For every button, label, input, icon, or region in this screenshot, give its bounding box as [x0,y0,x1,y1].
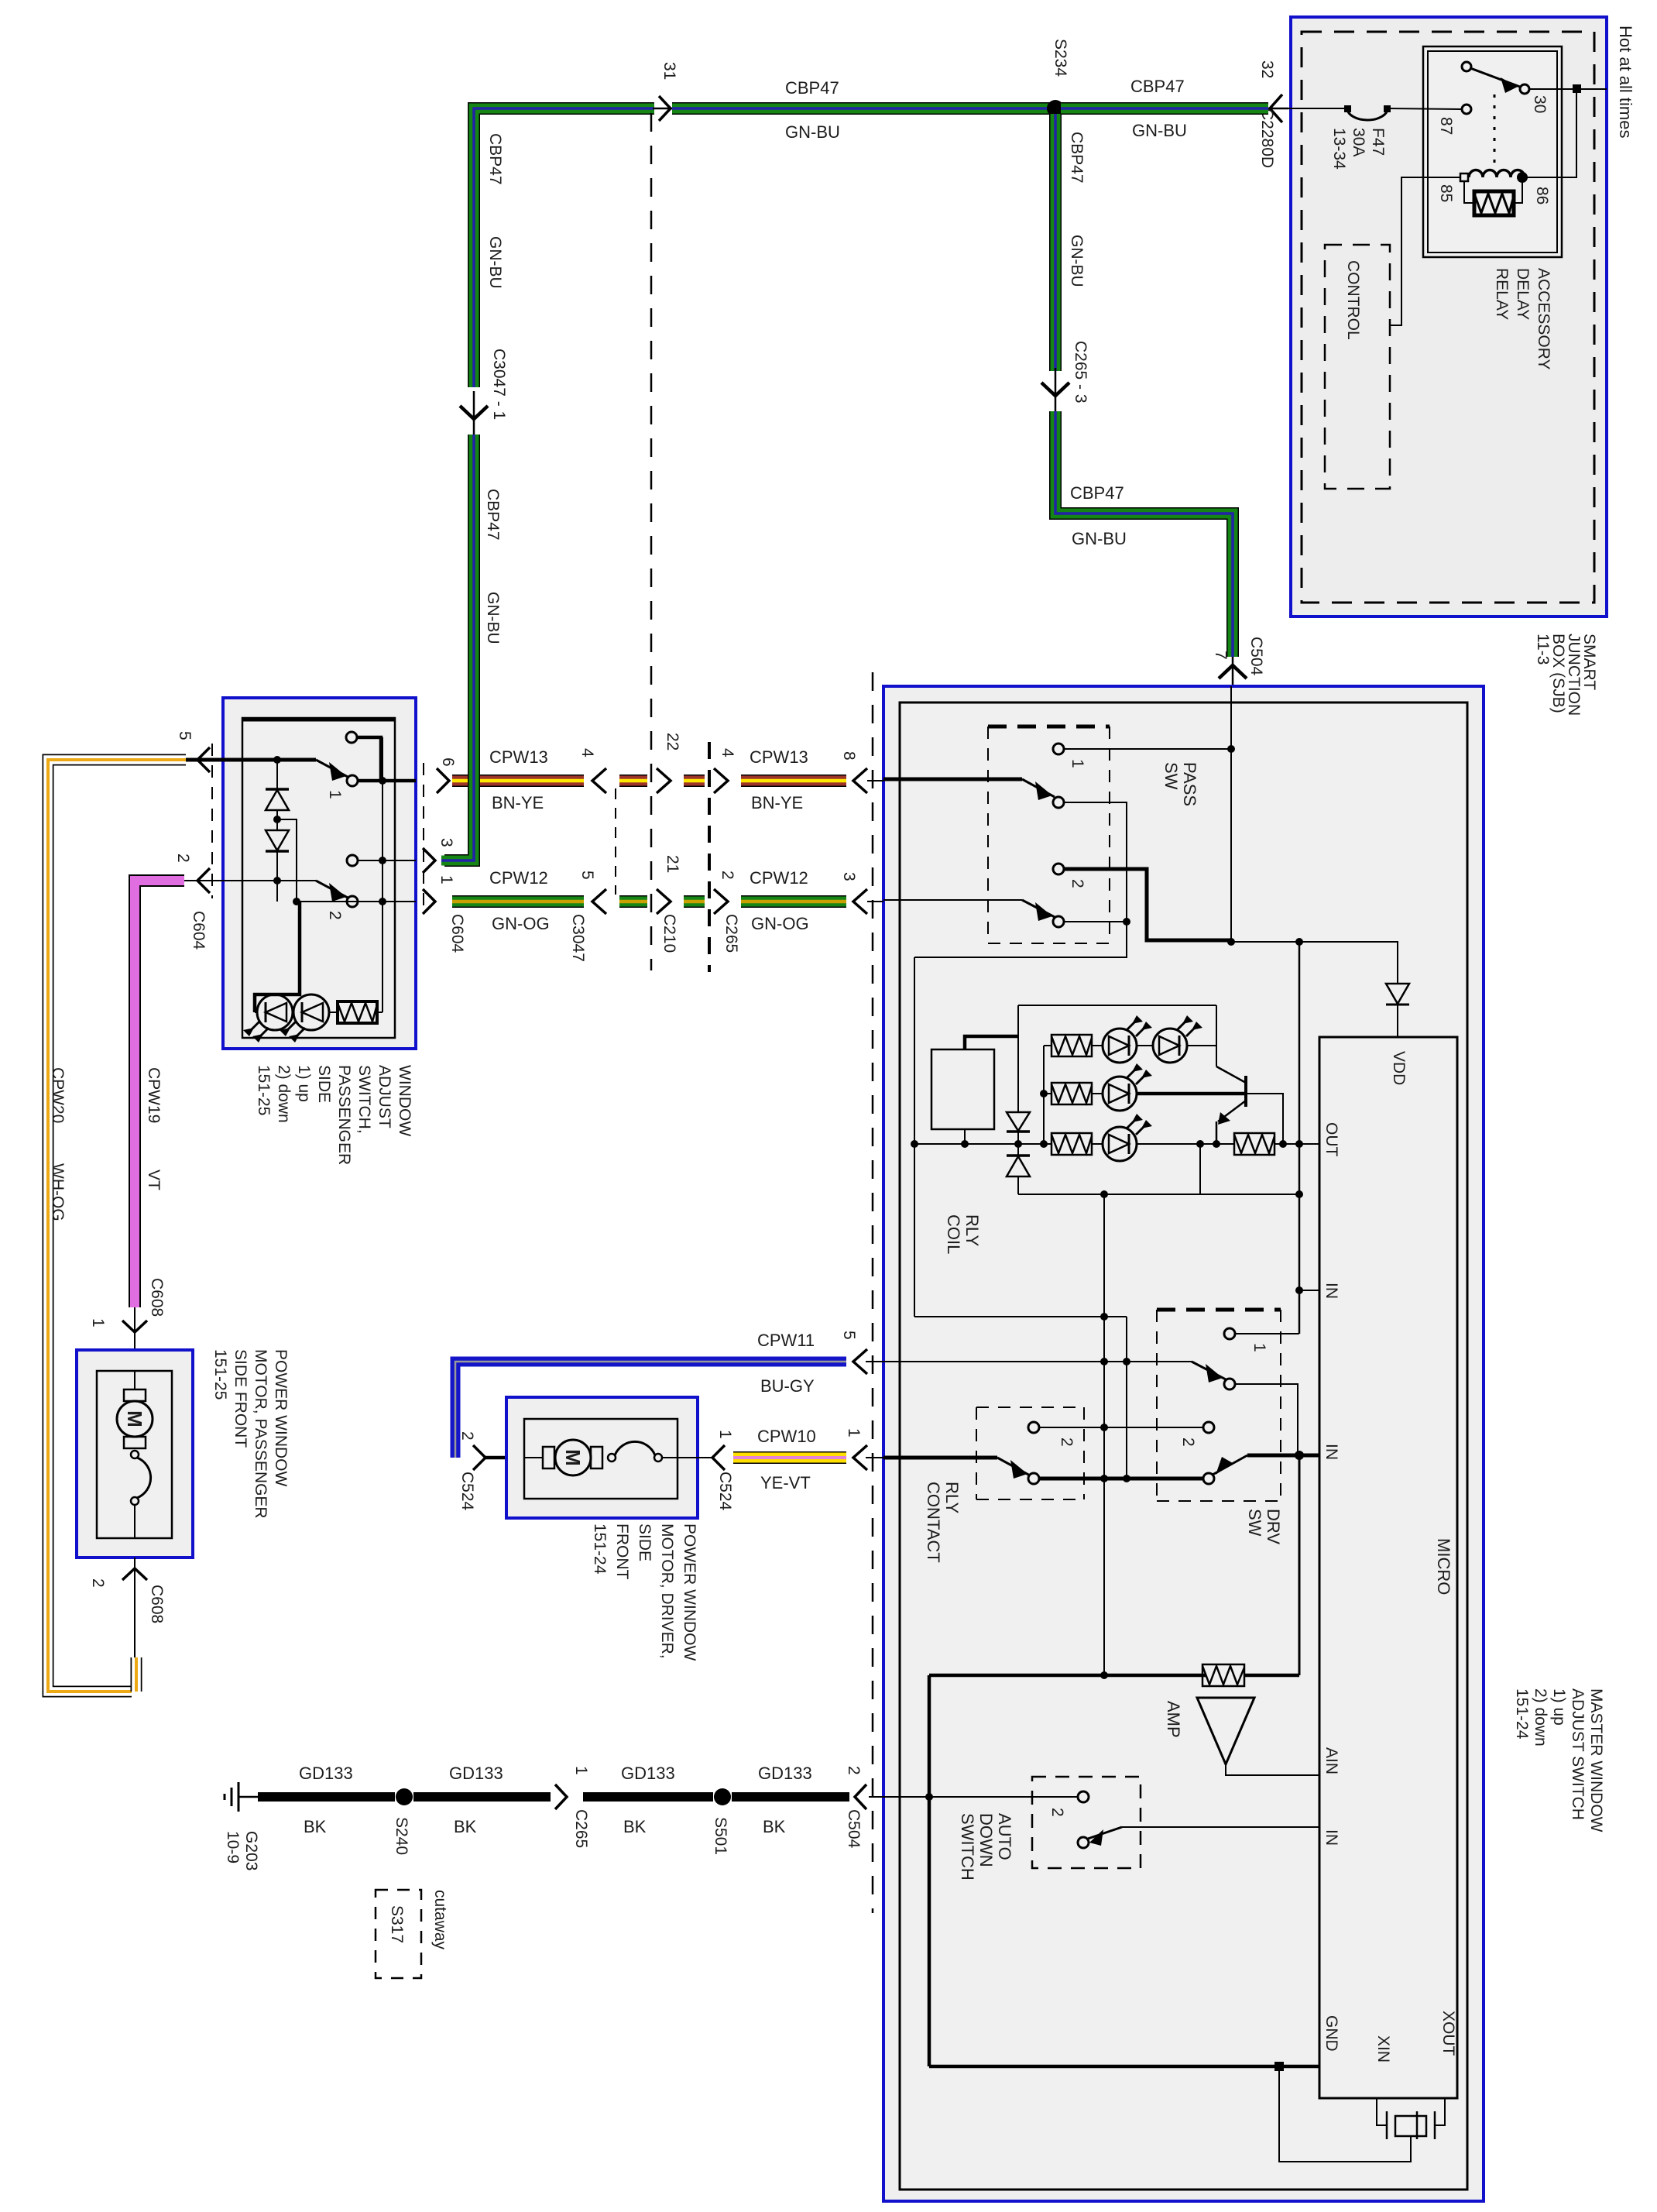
diode PD1 (cathode up) [266,788,289,791]
junction dot cpw11 x1455 [1123,1358,1130,1365]
wire led1-led2 passenger [293,1012,293,1013]
svg-text:POWER WINDOW: POWER WINDOW [681,1523,698,1661]
svg-text:85: 85 [1437,184,1455,202]
svg-text:CPW12: CPW12 [489,868,548,888]
svg-text:2: 2 [845,1766,863,1775]
svg-text:FRONT: FRONT [613,1523,631,1579]
main vertical bus [1298,942,1301,1334]
corner main vertical to feed [1244,1674,1299,1678]
svg-text:151-24: 151-24 [1513,1688,1531,1740]
relay armature arm [1470,68,1520,87]
splice S234 [1047,100,1064,117]
connector arrow cpw13 left-mid [592,768,606,793]
svg-text:2: 2 [1069,879,1086,888]
dashed line connector pair left [615,788,616,895]
svg-text:BK: BK [763,1817,786,1836]
junction dot base tie [1279,1140,1287,1148]
master window adjust switch blue box [883,686,1484,2201]
VDD diode [1386,984,1409,1004]
wire contact2 thick to feed junction [1064,869,1230,940]
svg-text:GD133: GD133 [299,1764,353,1783]
svg-text:CBP47: CBP47 [484,489,502,541]
wire contact30 to hot feed [1529,88,1607,90]
connector arrow cpw10 right [853,1445,867,1470]
wire cpw12 stub to master [867,901,883,902]
svg-text:SW: SW [1245,1509,1264,1537]
master switch assembly box [900,702,1467,2190]
junction dot thick line x1455 [1123,1475,1130,1482]
arm 2 arrowhead [1035,902,1052,921]
svg-text:4: 4 [578,748,596,757]
relay coil resistor branch [1464,181,1474,203]
S317 cutaway dashed box [376,1890,421,1978]
svg-text:BN-YE: BN-YE [492,793,544,812]
wire CPW12 solid right [741,895,846,908]
AMP resistor [1202,1664,1244,1686]
vertical x1426 [1103,1194,1105,1675]
svg-text:GN-OG: GN-OG [492,914,550,933]
svg-text:PASS: PASS [1180,762,1199,806]
junction hot feed to coil [1573,84,1581,93]
wire GD133 segment 2 [413,1792,551,1802]
PASS SW arm 1 [1022,779,1055,797]
right vertical x494 [382,737,383,1012]
svg-text:WINDOW: WINDOW [396,1065,413,1136]
connector arrow pin3 green [423,848,435,873]
svg-text:C524: C524 [458,1472,476,1511]
wire GD133 segment 1 [258,1792,395,1802]
wire led2 to right vertical [1187,1045,1216,1046]
accessory delay relay inner box [1428,51,1557,252]
wire CBP47 mid vertical lower + elbow to C504 [1055,411,1233,657]
svg-text:GD133: GD133 [621,1764,675,1783]
svg-text:2: 2 [719,871,736,880]
svg-text:CPW10: CPW10 [757,1427,816,1446]
connector arrow cpw13 mid2 [714,768,728,793]
C604 dashed connector line left [211,744,213,898]
svg-text:SWITCH: SWITCH [958,1813,977,1881]
svg-text:C504: C504 [1247,637,1265,676]
svg-text:BN-YE: BN-YE [751,793,803,812]
svg-text:C524: C524 [716,1472,734,1511]
svg-text:30A: 30A [1350,128,1367,156]
svg-text:SWITCH,: SWITCH, [355,1065,373,1134]
heavy dashed connector C265 [708,742,711,972]
connector arrow cpw13 right [853,768,867,793]
svg-text:IN: IN [1323,1829,1340,1846]
relay switch pivot pin 30 side [1462,62,1471,71]
diode D2 (cathode up) [1007,1154,1030,1157]
svg-text:M: M [561,1449,585,1466]
wire led row passenger [255,1012,258,1013]
SJB inner dashed border [1302,32,1594,603]
resistor zigzag in relay [1474,194,1514,213]
svg-text:C265: C265 [722,914,740,953]
thick feed line to AMP [929,1674,1206,1678]
wire CBP47 left vertical lower [444,434,474,860]
svg-text:SIDE FRONT: SIDE FRONT [232,1349,249,1448]
crystal ground loop [1279,2066,1411,2162]
svg-text:AUTO: AUTO [995,1813,1014,1860]
coil pin 85 tick [1460,173,1468,181]
junction dot bottom rail main vertical [1295,1190,1303,1198]
AUTO DOWN SWITCH dashed box [1032,1777,1141,1868]
MICRO box [1319,1037,1457,2098]
thermal breaker driver [608,1441,678,1461]
RLY CONTACT arm [997,1458,1030,1475]
LED3 row2 [1103,1063,1152,1111]
bottom rail [1018,1194,1299,1195]
junction dot IN1 stub [1295,1286,1303,1294]
wire GD133 entry inside [900,1796,1078,1798]
splice S501 [714,1788,731,1805]
wire pin2 stub [184,880,223,881]
junction dot diodes mid / out rail [1014,1140,1022,1148]
AUTO DOWN pivot circle [1078,1837,1089,1848]
AUTO DOWN contact circle [1078,1791,1089,1802]
wire CPW10 pin1 thick entry [883,1456,997,1460]
wire CPW12 dash segment 1 [619,895,647,908]
junction dot cpw11 x1426 [1100,1358,1108,1365]
wire fuse to pin 32 [1285,108,1347,109]
svg-text:Hot at all times: Hot at all times [1616,26,1635,139]
passenger top contact circle [346,732,357,743]
junction dot pin2 diode [273,877,281,884]
svg-text:GN-BU: GN-BU [486,236,504,289]
svg-text:22: 22 [664,733,681,750]
wire led2-resistor passenger [329,1012,338,1013]
OUT rail led4 to resistor [1137,1143,1234,1145]
AUTO DOWN arm [1088,1827,1122,1839]
relay contact 30 circle [1520,84,1529,94]
PASS SW dashed box [988,726,1110,943]
svg-text:DELAY: DELAY [1514,268,1532,320]
resistor R1 [1051,1035,1092,1056]
passenger switch inner box [242,718,395,1038]
RLY COIL rectangle [931,1049,994,1129]
connector arrow pin2 [197,868,210,893]
svg-text:C608: C608 [148,1585,166,1623]
resistor R2 [1051,1083,1092,1104]
junction dot OUT on main vertical [1295,1140,1303,1148]
PASS SW contact 2 circle [1053,864,1064,874]
svg-text:1) up: 1) up [295,1065,313,1102]
svg-text:151-25: 151-25 [255,1065,273,1115]
svg-text:7: 7 [1212,651,1230,660]
svg-text:13-34: 13-34 [1330,128,1348,170]
wire CBP47 mid vertical upper [1049,114,1062,371]
wire CPW11 inside to DRV SW [883,1361,1192,1362]
junction dot thick line x1426 [1100,1475,1108,1482]
wire cpw11 stub to master [866,1361,883,1362]
crystal left plate [1386,2111,1388,2139]
LED row 2: wire [1044,1093,1051,1094]
svg-text:1: 1 [1069,759,1086,768]
svg-text:RLY: RLY [962,1214,982,1246]
svg-text:GN-BU: GN-BU [785,122,840,142]
svg-text:5: 5 [578,871,596,880]
IN1 stub to MICRO [1299,1290,1319,1291]
vertical x1455 [1126,1317,1127,1479]
svg-text:2: 2 [1179,1437,1197,1447]
svg-text:1: 1 [1250,1343,1268,1352]
svg-text:GN-BU: GN-BU [1132,121,1187,140]
wire diode mid tap L [277,819,297,902]
svg-text:CBP47: CBP47 [1070,483,1124,503]
PASS SW arm 2 [1022,900,1055,917]
junction dot gnd crystal [1274,2062,1284,2071]
wire r1 to led1 [1092,1045,1103,1046]
svg-text:CPW13: CPW13 [489,747,548,767]
svg-text:3: 3 [840,872,858,881]
wire vt to motor [134,1307,136,1350]
svg-text:GN-BU: GN-BU [1068,235,1086,287]
arm 1 arrowhead [1035,781,1052,800]
passenger arm1 target circle [347,775,358,786]
svg-text:MOTOR, PASSENGER: MOTOR, PASSENGER [252,1349,269,1519]
wire CPW20 WH-OG top run [48,760,186,1692]
svg-text:11-3: 11-3 [1534,634,1552,665]
passenger inner box top thick edge [242,718,395,722]
svg-text:M: M [123,1410,146,1427]
junction dot diode mid [273,816,281,823]
DRV SW arm lower [1213,1455,1247,1475]
crystal XOUT lead [1435,2098,1445,2125]
wire IN3 to MICRO [1122,1826,1319,1828]
C604 dashed connector line right [423,763,424,910]
wire CPW13 solid right [741,775,846,787]
wire CBP47 top horizontal mid segment [672,102,1051,115]
wire c524 to motor thick [485,1456,524,1460]
passenger arm 1 [316,760,348,777]
svg-text:ADJUST: ADJUST [376,1065,393,1128]
wire motor pin2 down [134,1558,136,1657]
junction dot contact1/C504 [1227,745,1235,753]
connector arrow cpw12 mid [657,889,671,914]
passenger LED1 [243,994,293,1042]
junction dot emitter node [1213,1140,1220,1148]
passenger arm2 arrowhead [329,883,346,902]
connector arrow cpw12 left-mid [592,889,606,914]
led left vertical with diodes [1017,1005,1019,1112]
wire CPW12 internal [297,901,416,902]
svg-text:4: 4 [719,748,736,757]
connector arrow C524-1 [712,1445,725,1470]
svg-text:32: 32 [1258,60,1276,78]
PASS SW arm2 target circle [1053,916,1064,927]
short vertical out to bottom rail [1199,1144,1201,1194]
ground G203 symbol [225,1782,258,1812]
svg-text:CBP47: CBP47 [1130,77,1185,96]
harness dashed line left of master switch [872,672,874,1913]
svg-text:C504: C504 [845,1809,863,1849]
connector arrow cpw12 mid2 [714,889,728,914]
svg-text:BK: BK [454,1817,477,1836]
svg-text:COIL: COIL [944,1214,963,1254]
svg-text:3: 3 [437,838,455,847]
motor M2 driver [524,1440,602,1475]
wire contact1 to C504 vertical [1064,748,1231,750]
connector arrow pin6 [437,768,449,793]
svg-text:BU-GY: BU-GY [760,1376,815,1396]
svg-text:C3047: C3047 [569,914,587,962]
connector arrow C524-2 [473,1445,485,1470]
wire CBP47 top horizontal right segment [1061,102,1268,115]
svg-text:RELAY: RELAY [1493,268,1511,320]
wire arm1 target to right [914,802,1127,957]
wire resistor to vertical passenger [377,1012,383,1013]
RLY CONTACT dashed box [976,1407,1084,1499]
wire amp out to AIN [1226,1764,1319,1775]
wire CPW13 dash segment 1 [619,775,647,787]
svg-text:31: 31 [660,62,678,80]
fuse end ticks [1384,105,1391,112]
svg-text:S317: S317 [388,1905,406,1943]
crystal X1: XIN lead [1377,2098,1387,2125]
svg-text:XIN: XIN [1374,2035,1392,2063]
connector arrow C265-1 [555,1784,567,1809]
junction dot bottom rail x1426 [1100,1190,1108,1198]
svg-text:GND: GND [1323,2015,1340,2052]
wire thin link at pin32 [1265,108,1288,110]
wire rly coil top thick [965,1036,1018,1049]
wire r2 to led3 [1092,1093,1103,1094]
wire motor to cpw10 [678,1457,712,1458]
DRV SW contact 2 circle [1203,1422,1214,1433]
thick vertical x1200 [928,1675,931,2066]
thick GND rail [929,2065,1319,2069]
DRV SW pivot circle [1203,1473,1214,1484]
PASS SW arm1 target circle [1053,797,1064,808]
connector arrow pin1 [423,889,435,914]
svg-text:1: 1 [716,1430,734,1439]
wire diode to MICRO VDD [1397,1005,1398,1037]
svg-text:87: 87 [1437,117,1455,135]
svg-text:SIDE: SIDE [315,1065,333,1103]
wire CPW13 solid left [452,775,584,787]
auto down arm arrowhead [1089,1829,1103,1846]
svg-text:PASSENGER: PASSENGER [335,1065,353,1165]
RLY contact 2 circle [1028,1422,1039,1433]
CONTROL dashed box [1325,245,1390,489]
led network top rail [1018,1005,1216,1006]
wire led1 to led2 [1137,1045,1153,1046]
wire CPW12 dash segment 2 [684,895,705,908]
DRV SW dashed box [1157,1310,1281,1501]
wire 87 to fuse [1388,108,1462,109]
svg-text:1: 1 [437,875,455,884]
svg-text:1: 1 [572,1766,590,1775]
wire cpw13 stub to master [867,780,883,781]
svg-text:DOWN: DOWN [976,1813,996,1867]
svg-text:XOUT: XOUT [1439,2011,1457,2056]
svg-text:GN-BU: GN-BU [1072,529,1127,548]
wire vertical x1181 [914,957,915,1317]
wire cpw10 stub to master [866,1457,883,1458]
connector C504-7 arrow [1232,657,1234,686]
svg-text:SW: SW [1161,762,1181,790]
wire top contact thick L [357,737,381,781]
fuse F47 arc [1347,108,1388,120]
passenger motor inner box [97,1371,172,1538]
connector arrow cpw11 right [853,1349,867,1374]
passenger pin3 contact circle [347,855,358,866]
svg-text:ADJUST SWITCH: ADJUST SWITCH [1569,1688,1587,1820]
PASS SW contact 1 circle [1053,744,1064,754]
svg-text:CPW13: CPW13 [750,747,808,767]
relay arm arrowhead [1501,77,1518,93]
svg-text:1) up: 1) up [1550,1688,1568,1726]
right vertical to transistor [1216,1005,1217,1066]
wire GD133 segment 3 [583,1792,713,1802]
svg-text:CBP47: CBP47 [1068,132,1086,184]
wire feed node to VDD diode [1231,942,1398,984]
passenger arm 2 [316,881,348,898]
svg-text:1: 1 [845,1428,863,1437]
svg-text:VT: VT [145,1170,163,1190]
svg-text:S234: S234 [1051,39,1069,77]
svg-text:2: 2 [1058,1437,1076,1447]
wire CPW10 YE-VT [733,1451,846,1464]
connector C265-3 arrow [1055,368,1057,413]
junction dot y1700 x1426 [1100,1313,1108,1321]
pin5 thick wire inside [223,758,316,762]
connector arrow pin5 [197,747,210,772]
junction dot contact2 line x1426 [1100,1424,1108,1431]
svg-text:BK: BK [304,1817,327,1836]
svg-text:C604: C604 [448,914,466,953]
svg-text:5: 5 [840,1331,858,1340]
wire y1700 horizontal [914,1316,1127,1317]
LED2 row1 [1153,1015,1202,1063]
wire pin3 entry [883,899,1022,901]
svg-text:86: 86 [1533,187,1551,204]
svg-text:GN-OG: GN-OG [751,914,809,933]
junction dot rows row3 [1040,1140,1048,1148]
driver motor inner box [524,1419,678,1499]
wire CPW19 VT [135,881,184,1307]
junction dot short vert [1196,1140,1204,1148]
relay contact 87 circle [1462,105,1471,114]
svg-text:C210: C210 [660,914,678,953]
svg-text:RLY: RLY [942,1482,962,1513]
DRV SW contact 1 circle [1224,1328,1235,1339]
svg-text:cutaway: cutaway [431,1890,449,1950]
wire drv arm target L to IN2 [1235,1384,1298,1453]
wire arm2 target to vertical [1064,921,1127,922]
svg-text:POWER WINDOW: POWER WINDOW [272,1349,290,1486]
SJB box fill [1291,17,1607,617]
OUT rail resistor to MICRO [1274,1143,1319,1145]
connector arrow C608-2 [122,1568,147,1580]
drv arm lower arrowhead [1216,1457,1233,1475]
svg-text:SIDE: SIDE [636,1523,654,1561]
accessory delay relay outer box [1423,46,1562,257]
LED1 row1 [1103,1015,1152,1063]
connector arrow C504-2 [855,1784,866,1809]
svg-text:1: 1 [326,790,344,799]
svg-text:ACCESSORY: ACCESSORY [1535,268,1552,370]
arm upper arrowhead [1206,1364,1223,1382]
svg-text:30: 30 [1531,95,1549,113]
diode D1 (cathode down) [1007,1112,1030,1131]
wire CPW11 BU-GY [455,1362,846,1458]
long dashed connector line C210 [650,113,653,970]
svg-text:GD133: GD133 [449,1764,503,1783]
junction dot coil bottom [961,1140,969,1148]
connector arrow cpw12 right [853,889,867,914]
svg-text:2: 2 [1048,1808,1066,1817]
